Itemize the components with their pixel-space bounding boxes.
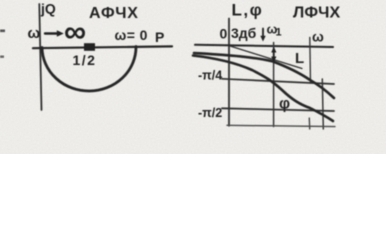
down arrow 3db [262,29,264,39]
svg-text:ω: ω [312,29,324,45]
scan artifact left edge dash 1 [0,30,5,33]
svg-text:1/2: 1/2 [73,52,97,68]
vertical grid line right [322,79,323,129]
0 dB frequency axis line [195,45,333,47]
svg-text:ЛФЧХ: ЛФЧХ [293,5,341,22]
tick at omega end [309,38,312,84]
nyquist semicircle [42,47,136,92]
svg-text:∞: ∞ [64,14,86,49]
bottom tick at 310 [308,118,310,129]
svg-text:jQ: jQ [40,1,56,17]
left plot horizontal axis P [33,46,172,48]
svg-text:-π/2: -π/2 [198,106,222,120]
svg-text:3дб: 3дб [231,25,257,41]
L asymptote thin line [230,46,302,69]
up arrow 3db gap at omega1 [273,50,275,59]
phi curve [193,56,333,122]
bottom frame line [227,125,335,126]
svg-text:ω= 0: ω= 0 [115,27,148,43]
svg-text:ω: ω [28,25,41,42]
right plot vertical axis [228,19,230,126]
left plot vertical axis jQ [39,4,41,110]
svg-text:-π/4: -π/4 [198,69,222,83]
omega1 vertical grid line [273,43,275,127]
arrow to infinity [45,32,59,34]
svg-text:0: 0 [220,26,228,42]
L curve [194,53,334,98]
svg-text:Р: Р [155,29,164,45]
svg-text:1: 1 [276,27,282,39]
svg-text:L: L [295,50,304,67]
svg-text:L,φ: L,φ [232,1,264,20]
square marker at 1/2 [84,43,95,51]
-pi/4 grid line [222,79,334,84]
scan artifact left edge dash 2 [0,56,4,58]
-pi/2 grid line [222,108,334,111]
svg-text:АФЧХ: АФЧХ [89,5,139,22]
svg-text:φ: φ [279,96,290,113]
